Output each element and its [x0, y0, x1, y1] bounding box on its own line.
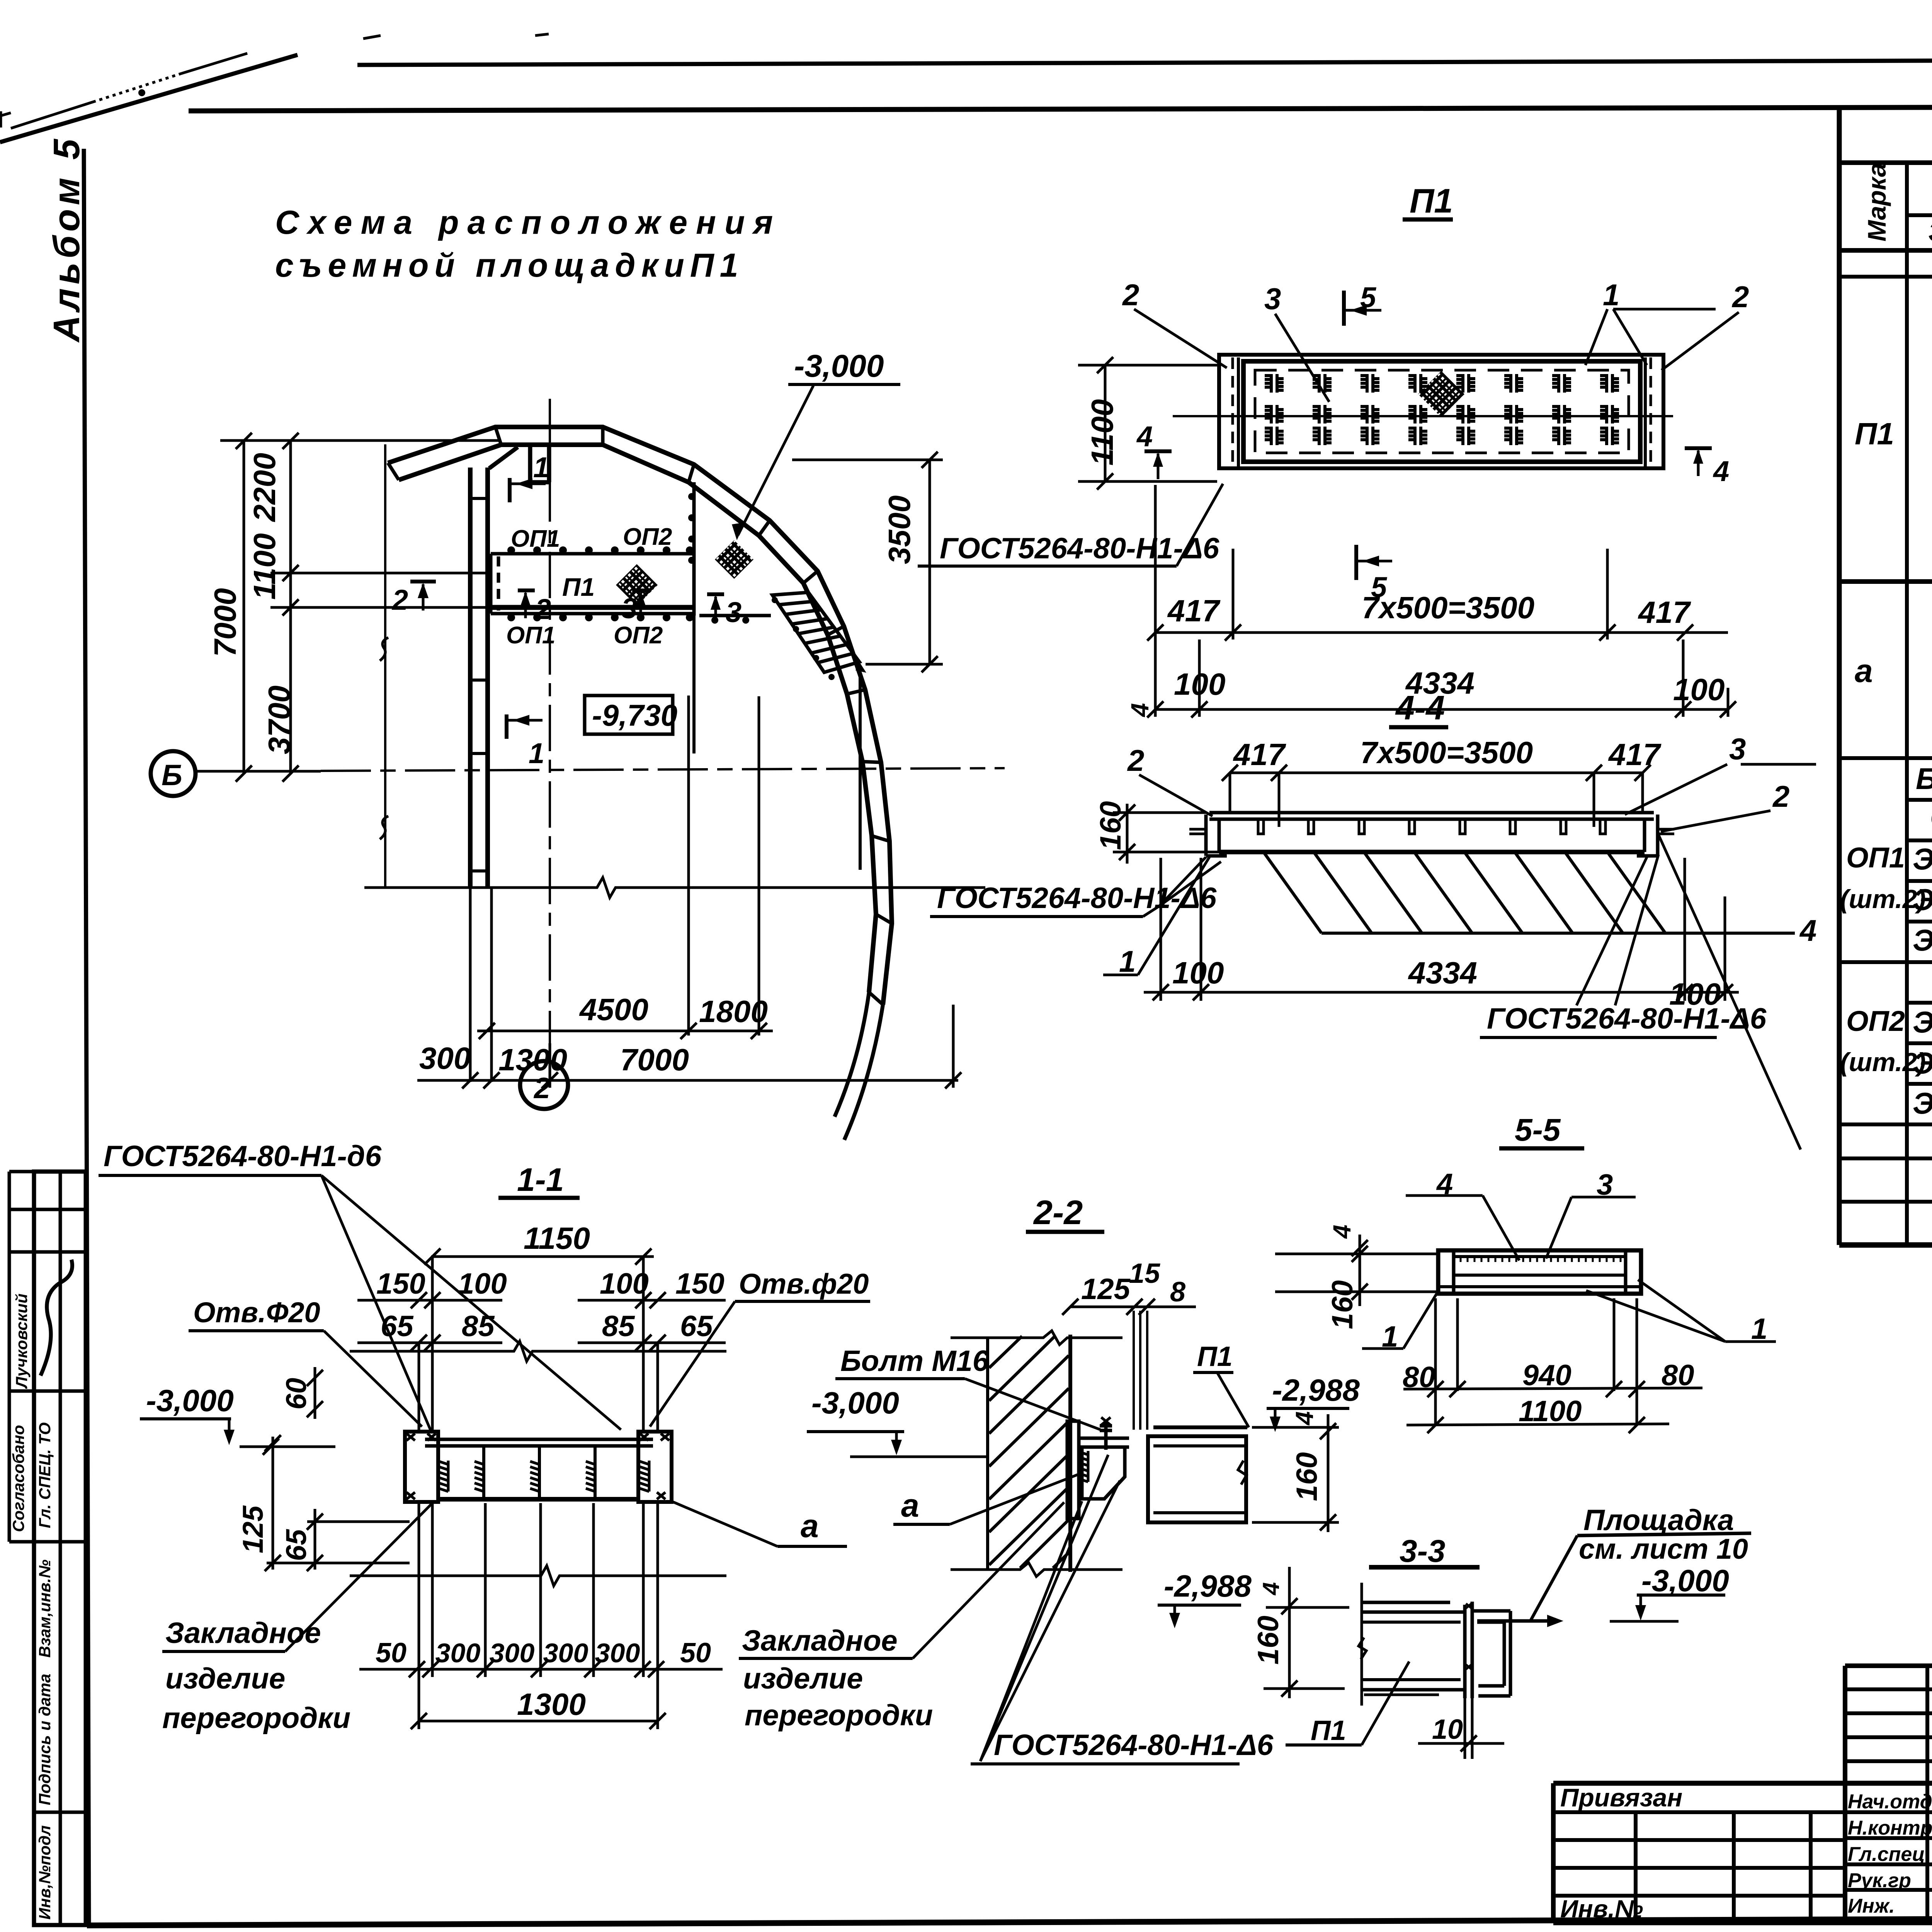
svg-text:ЭСПХ-30: ЭСПХ-30	[1913, 883, 1932, 917]
dim 1100 left	[1078, 357, 1217, 490]
chequer marks rows	[1265, 374, 1619, 393]
axis Б line	[196, 770, 321, 773]
lower supports dot row	[507, 614, 694, 621]
bottom dim row 4500 1800	[477, 696, 773, 1039]
svg-text:Привязан: Привязан	[1560, 1783, 1682, 1812]
break lines	[350, 1341, 726, 1361]
platform outer outline	[1219, 355, 1663, 468]
svg-text:7х500=3500: 7х500=3500	[1362, 590, 1534, 625]
svg-text:-3,000: -3,000	[811, 1386, 899, 1420]
svg-text:3: 3	[726, 596, 742, 628]
svg-text:4: 4	[1136, 420, 1153, 452]
svg-text:4: 4	[1126, 703, 1154, 718]
svg-text:ГОСТ5264-80-Н1-Δ6: ГОСТ5264-80-Н1-Δ6	[940, 532, 1219, 565]
centre vertical axis	[549, 399, 551, 1060]
right partition wall of upper room	[692, 482, 696, 616]
svg-text:65: 65	[680, 1310, 713, 1343]
svg-text:Болт М16: Болт М16	[840, 1345, 989, 1378]
svg-text:Б: Б	[162, 759, 182, 792]
svg-text:2: 2	[1772, 779, 1789, 813]
axis Б circle	[151, 751, 196, 796]
central hatch patch	[1418, 371, 1464, 417]
top pillar stub	[489, 445, 549, 482]
svg-text:Подпись и дата: Подпись и дата	[36, 1674, 54, 1805]
svg-text:ОП2: ОП2	[1846, 1005, 1905, 1037]
svg-text:100: 100	[1172, 956, 1224, 990]
svg-text:ОП1: ОП1	[1846, 842, 1905, 874]
svg-text:160: 160	[1252, 1616, 1285, 1665]
tank ring inner wall	[399, 445, 876, 992]
svg-text:Закладное: Закладное	[165, 1617, 321, 1650]
svg-text:300: 300	[543, 1638, 588, 1668]
svg-text:1150: 1150	[524, 1221, 590, 1255]
svg-text:Отв.ф20: Отв.ф20	[739, 1268, 869, 1300]
svg-text:7000: 7000	[208, 588, 242, 657]
svg-text:300: 300	[435, 1638, 481, 1668]
rotated captions of left strip	[9, 1294, 54, 1920]
svg-text:65: 65	[280, 1529, 312, 1561]
platform continuation arrow near 3-3	[1477, 1619, 1554, 1623]
svg-text:4: 4	[1328, 1225, 1356, 1239]
section flag 3 right	[707, 594, 724, 622]
svg-text:4: 4	[1799, 913, 1816, 947]
svg-text:а: а	[1855, 653, 1873, 689]
axis 2 circle	[520, 1061, 568, 1109]
left attribute strip	[9, 1172, 86, 1925]
stiffeners + welds	[484, 1446, 595, 1499]
4-4 bottom dims 100 4334 100	[1144, 858, 1739, 1001]
lower right chamber verticals	[859, 672, 862, 870]
4-4 bolts	[1258, 819, 1605, 834]
svg-text:1-1: 1-1	[517, 1162, 564, 1198]
scan artifact diagonals top-left	[0, 34, 549, 142]
svg-text:60: 60	[280, 1378, 312, 1410]
svg-text:ОП2: ОП2	[623, 524, 672, 550]
centre line	[1173, 415, 1673, 417]
svg-text:50: 50	[680, 1638, 711, 1668]
2-2 bolt М16	[1100, 1417, 1112, 1450]
left section rows	[1553, 1810, 1932, 1814]
bottom dim row 300 1300 7000	[417, 1005, 961, 1088]
svg-text:Отв.Ф20: Отв.Ф20	[193, 1296, 320, 1328]
svg-text:П1: П1	[1197, 1341, 1233, 1372]
svg-text:ГОСТ5264-80-Н1-д6: ГОСТ5264-80-Н1-д6	[104, 1140, 382, 1173]
svg-text:2200: 2200	[247, 453, 282, 522]
signature squiggle in strip	[41, 1260, 72, 1376]
svg-text:4: 4	[1258, 1582, 1284, 1595]
projection vertical from ring left end	[384, 444, 386, 888]
svg-text:Эскиз: Эскиз	[1928, 216, 1932, 248]
svg-text:4500: 4500	[579, 992, 648, 1027]
left interior wall	[470, 468, 492, 1082]
svg-text:3: 3	[1264, 282, 1281, 316]
main stamp top	[1553, 1781, 1932, 1786]
svg-text:-3,000: -3,000	[146, 1383, 234, 1418]
svg-text:2: 2	[1731, 280, 1749, 314]
svg-text:1: 1	[533, 451, 549, 483]
svg-text:417: 417	[1638, 595, 1691, 629]
ring lower single arc	[844, 1005, 883, 1140]
svg-text:ГОСТ5264-80-Н1-Δ6: ГОСТ5264-80-Н1-Δ6	[937, 882, 1217, 915]
svg-text:ЭБПХ-15: ЭБПХ-15	[1913, 1086, 1932, 1120]
svg-text:Схема расположения: Схема расположения	[275, 204, 781, 241]
svg-text:перегородки: перегородки	[745, 1699, 933, 1732]
projection verticals below П1 plan	[1155, 485, 1728, 717]
svg-text:8: 8	[1170, 1277, 1185, 1308]
svg-text:а: а	[901, 1487, 919, 1524]
platform П1 rectangle	[491, 554, 693, 614]
svg-text:4-4: 4-4	[1395, 689, 1445, 727]
section flag 2 mid	[518, 590, 535, 618]
ring segment joints	[388, 427, 892, 1005]
top plate	[425, 1438, 653, 1441]
svg-text:ОП2: ОП2	[614, 622, 663, 649]
svg-text:1800: 1800	[699, 994, 768, 1029]
svg-text:50: 50	[376, 1638, 406, 1668]
svg-text:Взам,инв.№: Взам,инв.№	[36, 1560, 54, 1658]
svg-text:5: 5	[1360, 281, 1377, 313]
5-5 serration ticks	[1461, 1257, 1621, 1262]
П1 plan dim row 417 7x500 417	[1147, 624, 1728, 641]
svg-text:2: 2	[534, 593, 551, 625]
svg-text:100: 100	[458, 1267, 507, 1300]
verticals	[1551, 1783, 1556, 1923]
section flag 1 bottom	[507, 714, 543, 739]
svg-text:125: 125	[237, 1505, 269, 1553]
svg-text:4334: 4334	[1408, 956, 1477, 990]
svg-text:160: 160	[1326, 1280, 1359, 1329]
svg-text:СПХ: СПХ	[1930, 800, 1932, 834]
svg-text:4: 4	[1713, 455, 1729, 487]
svg-text:150: 150	[376, 1267, 425, 1300]
svg-text:85: 85	[602, 1310, 635, 1343]
svg-text:150: 150	[675, 1267, 724, 1300]
5-5 channel assembly	[1438, 1250, 1641, 1294]
svg-text:-2,988: -2,988	[1164, 1569, 1252, 1603]
svg-text:300: 300	[595, 1638, 640, 1668]
hatch patch right chamber	[715, 540, 753, 579]
60 dim	[307, 1367, 323, 1419]
svg-text:изделие: изделие	[743, 1662, 863, 1695]
svg-text:1100: 1100	[247, 533, 282, 600]
svg-text:съемной площадкиП1: съемной площадкиП1	[275, 247, 744, 284]
svg-text:417: 417	[1167, 594, 1221, 628]
svg-text:Н.контр.: Н.контр.	[1848, 1817, 1932, 1839]
hatch patch on П1	[616, 564, 658, 606]
channel bottom	[438, 1497, 638, 1502]
svg-text:417: 417	[1608, 737, 1662, 772]
svg-text:Инв.№: Инв.№	[1560, 1895, 1643, 1923]
dim 3500 right	[792, 452, 943, 672]
3-3 right support plate and angle	[1465, 1602, 1510, 1698]
stairs	[772, 592, 866, 680]
corner x-marks	[406, 1434, 669, 1499]
left end plate lines	[1231, 357, 1234, 466]
frame left border	[84, 149, 89, 1925]
svg-text:2-2: 2-2	[1033, 1193, 1083, 1231]
svg-text:1: 1	[1119, 944, 1136, 978]
svg-text:ОП1: ОП1	[511, 526, 560, 552]
svg-text:15: 15	[1129, 1258, 1160, 1289]
2-2 bracket with gusset	[1080, 1438, 1129, 1499]
-9,730 level box	[585, 696, 673, 734]
table Ведомость элементов : grid	[1839, 107, 1932, 1245]
svg-text:-9,730: -9,730	[592, 698, 677, 732]
svg-text:Альбом 5: Альбом 5	[46, 135, 87, 343]
2-2 160 dim	[1252, 1414, 1339, 1532]
svg-text:1300: 1300	[517, 1687, 586, 1721]
svg-text:Нач.отд: Нач.отд	[1848, 1791, 1932, 1813]
projection verticals 1-1	[419, 1257, 658, 1729]
svg-text:ЭСПХ-15: ЭСПХ-15	[1913, 1046, 1932, 1080]
svg-text:ГОСТ5264-80-Н1-Δ6: ГОСТ5264-80-Н1-Δ6	[994, 1729, 1274, 1762]
supports row to stairs	[699, 614, 771, 617]
drawing frame top border	[189, 106, 1932, 111]
svg-text:2: 2	[1127, 743, 1144, 777]
section flag 4 left	[1145, 451, 1172, 479]
frame bottom border	[87, 1917, 1932, 1925]
65 dim	[307, 1509, 323, 1571]
2-2 П1 beam section	[1148, 1427, 1247, 1522]
4-4 shading diagonals	[1264, 852, 1795, 933]
svg-text:Гл. СПЕЦ. ТО: Гл. СПЕЦ. ТО	[36, 1422, 54, 1528]
svg-text:Закладное: Закладное	[742, 1624, 898, 1657]
stamp bottom	[1553, 1920, 1932, 1925]
svg-text:4: 4	[1291, 1411, 1318, 1426]
svg-text:П1: П1	[1311, 1715, 1346, 1746]
svg-text:Инж.: Инж.	[1848, 1895, 1895, 1917]
svg-text:ЭППХ-30: ЭППХ-30	[1913, 842, 1932, 876]
svg-text:изделие: изделие	[165, 1662, 285, 1695]
upper supports dot row	[507, 546, 694, 554]
3-3 160 dim	[1264, 1567, 1349, 1698]
svg-text:160: 160	[1094, 801, 1127, 850]
upper small table	[1845, 1663, 1932, 1668]
svg-text:Болт М16: Болт М16	[1916, 762, 1932, 796]
section flag 1 top	[510, 478, 546, 502]
svg-text:1300: 1300	[498, 1043, 567, 1077]
svg-text:перегородки: перегородки	[162, 1702, 350, 1735]
svg-text:10: 10	[1432, 1714, 1463, 1745]
middle rows	[1845, 1836, 1932, 1840]
dim verticals left (7000 / 2200-1100-3700)	[220, 433, 498, 782]
svg-text:Лучковский: Лучковский	[12, 1294, 31, 1389]
svg-text:85: 85	[462, 1310, 495, 1343]
svg-text:-2,988: -2,988	[1272, 1373, 1360, 1407]
П1 plan dim row 100 4334 100	[1147, 701, 1736, 718]
svg-text:3-3: 3-3	[1400, 1534, 1446, 1569]
svg-text:-3,000: -3,000	[794, 349, 884, 384]
svg-text:а: а	[801, 1508, 819, 1544]
svg-text:ЭППХ-15: ЭППХ-15	[1913, 1005, 1932, 1039]
section flag 3 mid	[632, 590, 649, 618]
svg-text:3500: 3500	[882, 495, 917, 564]
svg-text:Марка: Марка	[1862, 163, 1891, 241]
svg-text:П1: П1	[1410, 182, 1453, 220]
svg-text:940: 940	[1522, 1359, 1571, 1392]
4-4 left 160 dim	[1113, 804, 1219, 864]
svg-text:160: 160	[1291, 1452, 1323, 1501]
svg-text:2: 2	[1122, 278, 1139, 312]
svg-text:1100: 1100	[1085, 399, 1119, 466]
svg-text:3: 3	[1729, 732, 1746, 766]
svg-text:100: 100	[1673, 672, 1725, 707]
svg-text:1: 1	[529, 737, 544, 769]
svg-text:417: 417	[1233, 737, 1286, 772]
platform inner frame	[1243, 361, 1640, 462]
svg-text:2: 2	[391, 584, 408, 616]
svg-text:1: 1	[1603, 278, 1619, 312]
5-5 left 160 dim	[1275, 1235, 1437, 1306]
svg-text:3700: 3700	[262, 685, 296, 754]
svg-text:ОП1: ОП1	[506, 622, 555, 649]
svg-text:-3,000: -3,000	[1641, 1563, 1729, 1598]
svg-text:300: 300	[490, 1638, 535, 1668]
tank ring outer wall	[388, 427, 892, 1005]
svg-text:5-5: 5-5	[1515, 1112, 1561, 1148]
svg-text:Площадка: Площадка	[1583, 1504, 1734, 1537]
svg-text:П1: П1	[562, 573, 595, 601]
svg-text:100: 100	[600, 1267, 649, 1300]
right embed block	[638, 1432, 672, 1502]
125 dim	[265, 1435, 410, 1571]
svg-text:65: 65	[381, 1310, 414, 1343]
right end plate lines	[1650, 357, 1652, 466]
svg-text:П1: П1	[1855, 417, 1894, 451]
4-4 top dims	[1222, 765, 1651, 827]
bottom break line	[364, 878, 985, 898]
2-2 embedded plate	[1067, 1421, 1079, 1519]
svg-text:7х500=3500: 7х500=3500	[1360, 735, 1533, 770]
svg-text:Гл.спец.: Гл.спец.	[1848, 1843, 1930, 1866]
inner dashed contour	[1255, 370, 1629, 453]
svg-text:3: 3	[621, 592, 637, 624]
3-3 beam	[1359, 1583, 1465, 1706]
svg-text:7000: 7000	[620, 1043, 689, 1077]
svg-text:Инв,№подл: Инв,№подл	[36, 1825, 54, 1920]
2-2 concrete wall with hatching	[951, 1331, 1122, 1577]
section flag 5 top	[1344, 291, 1381, 326]
svg-text:Согласобано: Согласобано	[9, 1425, 27, 1532]
svg-text:см. лист 10: см. лист 10	[1579, 1533, 1748, 1565]
section flag 5 bottom	[1356, 545, 1392, 580]
svg-text:125: 125	[1081, 1273, 1131, 1306]
1-1 beam: left embed block	[405, 1432, 438, 1502]
4-4 beam	[1189, 813, 1674, 856]
svg-text:300: 300	[419, 1041, 471, 1075]
section flag 4 right	[1685, 448, 1712, 476]
svg-text:1100: 1100	[1519, 1395, 1582, 1428]
svg-text:ЭБПХ-30: ЭБПХ-30	[1913, 923, 1932, 957]
svg-text:Рук.гр: Рук.гр	[1848, 1869, 1911, 1892]
svg-text:ГОСТ5264-80-Н1-Δ6: ГОСТ5264-80-Н1-Δ6	[1487, 1002, 1767, 1035]
page top edge line	[357, 59, 1932, 65]
